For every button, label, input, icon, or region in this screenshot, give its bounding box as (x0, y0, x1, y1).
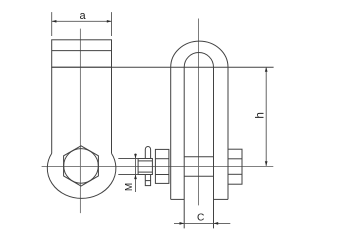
svg-text:h: h (253, 112, 267, 119)
svg-text:M: M (124, 183, 135, 191)
svg-text:a: a (79, 10, 86, 22)
svg-text:C: C (197, 212, 204, 223)
